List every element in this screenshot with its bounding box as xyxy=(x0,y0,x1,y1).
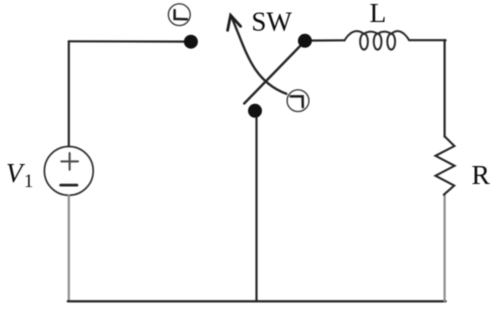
symbol A inner L xyxy=(175,10,187,19)
middle vertical wire xyxy=(255,111,257,301)
wire top-left horizontal xyxy=(69,40,188,42)
svg-text:R: R xyxy=(472,159,491,190)
plus sign xyxy=(61,153,78,170)
right contact dot xyxy=(298,34,312,48)
resistor R zigzag xyxy=(436,136,455,195)
rotation symbol circle A xyxy=(168,4,190,26)
minus sign xyxy=(61,184,77,187)
switch blade xyxy=(244,41,305,104)
voltage source V1 circle xyxy=(44,147,93,196)
svg-text:V1: V1 xyxy=(6,158,33,192)
svg-text:L: L xyxy=(370,0,387,28)
switch arrow curve xyxy=(231,15,287,94)
wire from right contact to coil xyxy=(305,39,345,41)
rotation symbol circle B xyxy=(287,90,309,112)
wire left rail lower (gray) xyxy=(68,195,70,301)
wire left rail upper xyxy=(68,41,70,146)
bottom contact dot xyxy=(248,104,262,118)
arrowhead xyxy=(228,15,241,30)
wire top-right from coil to corner xyxy=(409,39,445,41)
left contact dot xyxy=(184,35,198,49)
wire right rail lower (gray) xyxy=(444,195,446,301)
svg-text:SW: SW xyxy=(251,6,292,36)
inductor L coil xyxy=(344,31,409,50)
symbol B inner corner xyxy=(291,96,303,107)
wire bottom horizontal xyxy=(68,300,446,302)
wire right rail upper xyxy=(444,40,446,137)
